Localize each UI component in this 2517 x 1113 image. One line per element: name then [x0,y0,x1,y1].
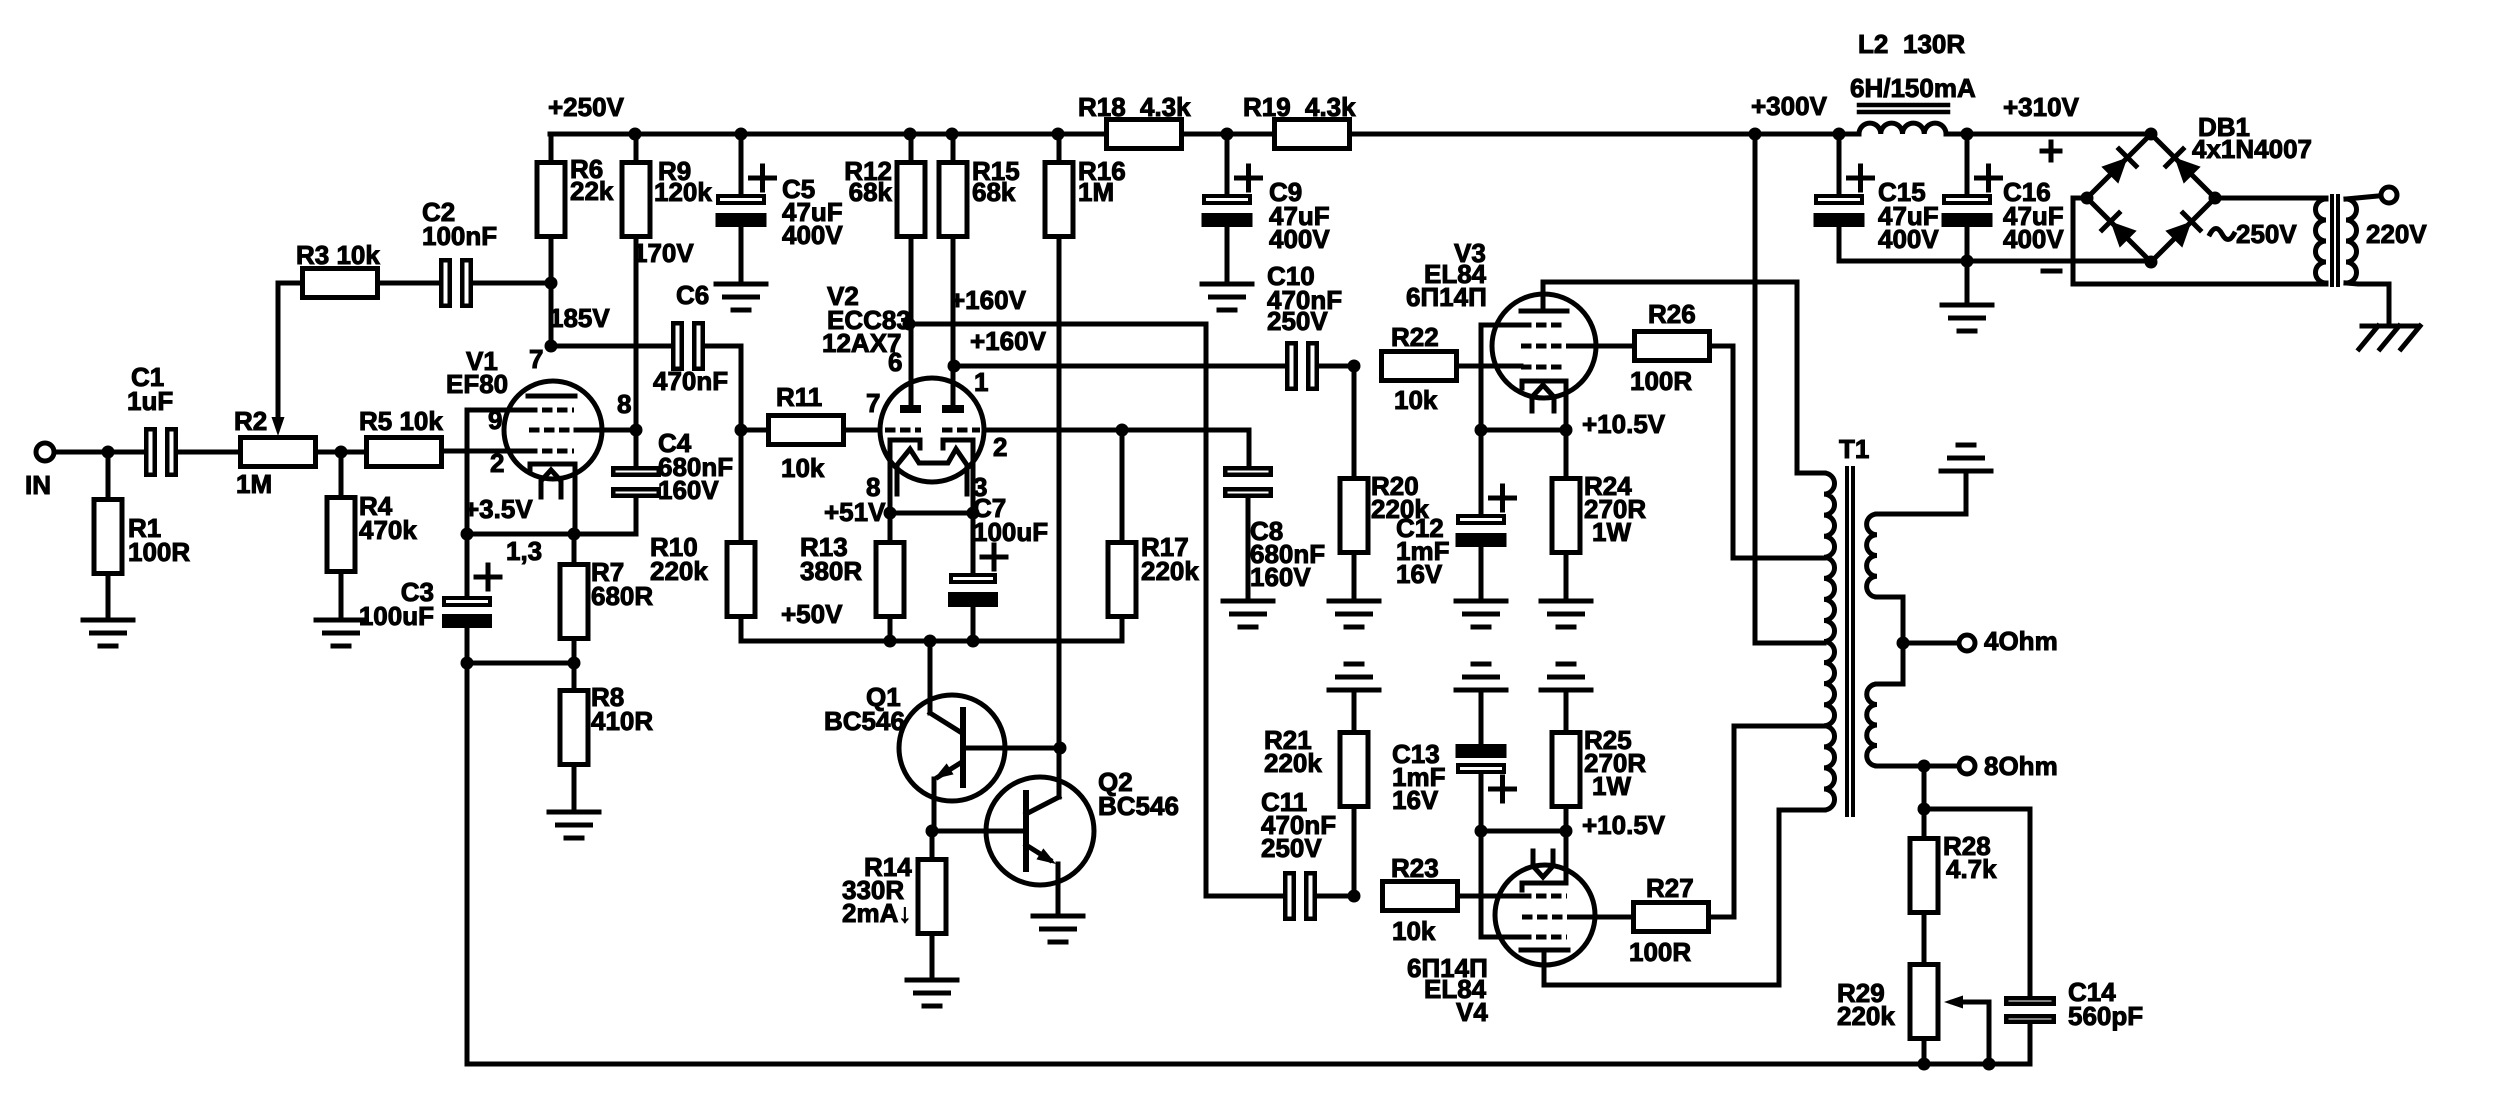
wire bridge AC left loop [2073,198,2326,284]
svg-text:1: 1 [974,367,988,397]
svg-text:+3.5V: +3.5V [464,494,533,524]
capacitor C12 1mF 16V [1479,430,1484,514]
wire V2 right grid to C8 [984,428,1249,433]
wire +10.5V rail V4 [1481,829,1566,834]
svg-text:T1: T1 [1839,434,1869,464]
svg-text:L2: L2 [1858,29,1888,59]
potentiometer R29 220k [1910,965,1938,1039]
svg-text:680R: 680R [591,581,653,611]
capacitor C8 680nF [1225,468,1271,475]
svg-text:6: 6 [888,347,902,377]
wire 8 Ohm tap [1877,764,1916,769]
capacitor C9 47uF 400V [1225,134,1230,194]
svg-text:+310V: +310V [2003,92,2080,122]
resistor R13 380R [888,513,893,540]
potentiometer R2 1M [241,438,316,467]
wire R11 to V2 grid [846,428,880,433]
svg-text:4.7k: 4.7k [1946,854,1997,884]
V1 grid g2 pin 8 [529,428,576,433]
svg-text:100R: 100R [1630,366,1692,396]
ground R14 [907,978,957,983]
wire +300V to T1 center tap [1753,134,1758,643]
R29 wiper arrow [1953,1000,1989,1005]
wire feedback bottom run [465,663,470,1064]
capacitor C5 47uF 400V [739,134,744,194]
svg-text:220k: 220k [1264,748,1322,778]
V4 cathode [1522,831,1566,890]
V2 anode right pin 1 [942,405,964,413]
svg-text:6П14П: 6П14П [1406,282,1487,312]
V4 grid g2 screen [1522,915,1571,920]
resistor R20 220k [1352,366,1357,476]
svg-text:16V: 16V [1392,785,1439,815]
svg-text:+10.5V: +10.5V [1582,810,1666,840]
svg-text:10k: 10k [781,453,825,483]
capacitor C13 1mF 16V [1479,690,1484,744]
V3 grid g2 screen [1521,344,1570,349]
svg-text:380R: 380R [800,556,862,586]
junction dots on +250V rail [629,128,642,141]
svg-text:160V: 160V [658,475,719,505]
svg-text:10k: 10k [1392,916,1436,946]
terminal 220V mains [2381,187,2397,203]
net +250V rail [550,132,1104,137]
svg-text:+50V: +50V [781,599,843,629]
V4 grid g3 tied to cathode [1521,935,1567,940]
wire 4 Ohm tap [1877,597,1903,684]
junction V1 anode pin 7 [545,340,558,353]
V3 anode wire to T1 primary top [1541,282,1546,311]
svg-text:220k: 220k [1141,556,1199,586]
wire +10.5V rail V3 [1481,428,1566,433]
svg-text:1uF: 1uF [127,386,173,416]
diode D2 lower-right [2165,222,2191,248]
wire 8 Ohm to feedback divider [1922,766,1927,809]
svg-text:2mA↓: 2mA↓ [842,898,911,928]
resistor R5 10k [367,438,442,467]
svg-text:250V: 250V [1267,306,1328,336]
terminal 4Ohm [1959,635,1975,651]
floating ground above R25 [1541,688,1591,693]
svg-text:185V: 185V [549,303,610,333]
tube V3 EL84 envelope [1492,294,1596,398]
svg-text:220k: 220k [650,556,708,586]
svg-text:R23: R23 [1391,853,1439,883]
ground R20 [1329,599,1379,604]
resistor R12 68k [909,134,914,160]
capacitor C14 560pF [2028,809,2033,996]
svg-text:R11: R11 [776,382,822,412]
resistor R10 220k [739,430,744,540]
capacitor C10 470nF 250V [1287,343,1296,389]
V2 grid left pin 7 [885,428,921,433]
ground power supply [1965,261,1970,304]
resistor R18 4.3k [1107,120,1182,149]
capacitor C16 47uF 400V [1965,134,1970,194]
svg-text:R22: R22 [1391,322,1439,352]
svg-text:250V: 250V [1261,833,1322,863]
floating ground above R21 [1329,688,1379,693]
wire bridge AC right to mains transformer [2215,196,2326,201]
resistor R23 10k [1383,882,1458,911]
R2 wiper arrow from R3 [276,283,281,424]
V2 anode left pin 6 [900,405,921,413]
svg-text:R2: R2 [234,406,267,436]
bridge minus mark [2043,269,2060,274]
wire input to C1 [54,450,144,455]
diode D4 upper-right [2175,158,2201,184]
ground C9 [1202,282,1252,287]
ground T1 secondary top [1941,469,1991,474]
svg-text:220V: 220V [2366,219,2427,249]
svg-text:410R: 410R [591,706,653,736]
resistor R27 100R [1634,903,1709,932]
svg-text:4.3k: 4.3k [1140,92,1191,122]
V2 cathode right pin 3 [943,440,973,513]
svg-text:7: 7 [866,388,880,418]
capacitor C11 470nF 250V [1285,873,1294,919]
svg-text:100nF: 100nF [422,221,497,251]
capacitor C7 100uF [971,513,976,573]
svg-text:1W: 1W [1592,771,1631,801]
V3 grid g1 [1521,365,1566,370]
wire R26 to T1 screen tap upper [1712,346,1824,558]
svg-text:R27: R27 [1646,873,1694,903]
resistor R8 410R [572,663,577,688]
resistor R6 22k [549,134,554,160]
svg-text:560pF: 560pF [2068,1001,2143,1031]
capacitor C6 470nF [673,323,682,369]
resistor R14 330R [930,831,935,857]
svg-text:R5 10k: R5 10k [359,406,443,436]
junction C11 R23 R21 [1317,894,1354,899]
resistor R3 10k [278,281,300,286]
svg-text:2: 2 [490,448,504,478]
ground C12 [1456,599,1506,604]
input terminal IN [36,443,54,461]
svg-text:130R: 130R [1903,29,1965,59]
svg-text:1,3: 1,3 [506,536,542,566]
resistor R16 1M [1057,134,1062,160]
capacitor C1 1uF [146,429,155,475]
svg-text:10k: 10k [1394,385,1438,415]
svg-text:R19: R19 [1243,92,1291,122]
svg-text:68k: 68k [849,177,893,207]
wire C1 to R2 [178,450,238,455]
capacitor C15 47uF 400V [1837,134,1842,194]
wire V2 cathode rail +51V [890,511,973,516]
svg-text:9: 9 [488,405,502,435]
V3 grid g3 tied to cathode [1521,323,1566,328]
svg-text:R3 10k: R3 10k [296,240,380,270]
svg-text:+10.5V: +10.5V [1582,409,1666,439]
V2 cathode left pin 8 [890,440,920,513]
AC tilde mark [2210,229,2234,240]
V4 anode plate [1521,948,1568,953]
resistor R17 220k [1120,430,1125,540]
V1 anode plate pin 7 [528,394,575,399]
V4 anode wire to T1 primary bottom [1544,810,1824,985]
ground C8 [1223,599,1273,604]
wire cathode bottom rail [467,661,574,666]
wire V1 cathode rail 1,3 [467,532,636,537]
svg-text:68k: 68k [972,177,1016,207]
wire R5 to V1 grid [444,449,526,454]
wire R3 to C2 [380,281,439,286]
V3 anode plate [1521,309,1567,314]
bridge plus mark [2042,149,2060,154]
svg-text:4x1N4007: 4x1N4007 [2192,134,2312,164]
svg-text:+160V: +160V [950,285,1027,315]
svg-text:V4: V4 [1456,997,1488,1027]
ground C5 [716,282,766,287]
resistor R9 120k [634,134,639,160]
tube V1 EF80 envelope [504,381,602,479]
svg-text:400V: 400V [1269,224,1330,254]
chassis ground mains [2362,324,2417,329]
wire T1 secondary top to ground [1877,473,1966,514]
capacitor C4 680nF [634,430,639,466]
junction V2 right anode pin 1 node [948,360,961,373]
transformer T1 secondary winding lower [1867,684,1877,766]
ground R24 [1541,599,1591,604]
resistor R7 680R [572,534,577,562]
wire +50V tail rail [741,639,1122,644]
svg-text:120k: 120k [654,177,712,207]
svg-text:250V: 250V [2236,219,2297,249]
svg-text:+300V: +300V [1751,91,1828,121]
svg-text:+160V: +160V [970,326,1047,356]
floating ground above C13 [1456,688,1506,693]
svg-text:BC546: BC546 [824,706,905,736]
V4 heater [1533,851,1553,877]
capacitor C3 100uF [465,534,470,596]
svg-text:1M: 1M [1078,177,1114,207]
Q1 base wire to Q2 collector [965,746,1060,751]
transformer T1 primary winding [1824,473,1835,810]
resistor R28 4.7k [1922,809,1927,836]
transformer T1 secondary winding upper [1867,514,1877,597]
svg-text:400V: 400V [2003,224,2064,254]
transistor Q2 BC546 [986,777,1094,885]
svg-text:+250V: +250V [548,92,625,122]
svg-text:7: 7 [529,344,543,374]
V4 grid g1 [1521,894,1567,899]
svg-text:8: 8 [617,389,631,419]
mains transformer secondary 220V winding [2346,199,2357,283]
wire anode node to C6 [551,344,673,349]
svg-text:R18: R18 [1078,92,1126,122]
resistor R21 220k [1352,690,1357,730]
svg-text:16V: 16V [1396,559,1443,589]
svg-text:4Ohm: 4Ohm [1984,626,2058,656]
svg-text:22k: 22k [570,176,614,206]
ground R8 [549,810,599,815]
svg-text:IN: IN [25,470,51,500]
svg-text:4.3k: 4.3k [1305,92,1356,122]
svg-text:R26: R26 [1648,299,1696,329]
svg-text:EF80: EF80 [446,369,508,399]
ground Q2 emitter [1033,914,1083,919]
diode D1 lower-left [2111,222,2137,248]
junction C10 R22 R20 [1319,364,1354,369]
svg-text:1M: 1M [236,469,272,499]
svg-text:BC546: BC546 [1098,791,1179,821]
svg-text:220k: 220k [1837,1001,1895,1031]
wire +160V left anode to V4 coupling [909,322,1206,327]
V3 heater [1532,385,1554,411]
resistor R1 100R [106,452,111,497]
capacitor C2 100nF [441,260,450,306]
junction V1 screen g2 node [630,424,643,437]
wire 220V top terminal [2346,196,2378,199]
svg-text:400V: 400V [1878,224,1939,254]
wire R2 to R5 [317,450,364,455]
wire C6 to grid node of V2 [705,344,741,349]
wire R27 to T1 screen tap lower [1711,726,1824,917]
V1 grid g3 pin 9 [527,408,574,413]
svg-text:100uF: 100uF [359,601,434,631]
ground R1 [83,618,133,623]
svg-text:100R: 100R [1629,937,1691,967]
resistor R25 270R 1W [1564,690,1569,730]
V1 grid g1 pin 2 [527,449,574,454]
svg-text:100uF: 100uF [973,517,1048,547]
bridge rectifier DB1 4x1N4007 [2087,134,2215,262]
tube V4 EL84 envelope [1495,865,1595,965]
V3 cathode [1522,381,1566,430]
svg-text:8Ohm: 8Ohm [1984,751,2058,781]
wire C2 to R6 node [473,281,551,286]
resistor R24 270R 1W [1564,430,1569,476]
resistor R22 10k [1382,352,1457,381]
svg-text:470nF: 470nF [653,366,728,396]
mains transformer primary 250V winding [2316,199,2327,283]
resistor R11 10k [769,416,844,445]
svg-text:400V: 400V [782,220,843,250]
transformer T1 core [1845,468,1849,815]
V1 heater [541,470,561,497]
resistor R15 68k [951,134,956,160]
tube V2 ECC83 envelope [880,378,984,482]
terminal 8Ohm [1959,758,1975,774]
svg-text:C6: C6 [676,280,709,310]
svg-text:+51V: +51V [824,497,886,527]
V1 cathode [530,464,575,534]
junction C3 bottom feedback node [461,657,474,670]
svg-text:6H/150mA: 6H/150mA [1850,73,1976,103]
junction V2 left anode pin 6 node [903,318,916,331]
ground R4 [316,618,366,623]
transistor Q1 BC546 [899,695,1005,801]
svg-text:470k: 470k [359,515,417,545]
wire 220V bottom to chassis ground [2346,283,2389,326]
svg-text:170V: 170V [633,238,694,268]
junction Q1 emitter node [926,825,939,838]
wire +160V right anode to V3 coupling [954,364,1286,369]
resistor R19 4.3k [1275,120,1350,149]
V2 heater [897,449,967,494]
diode D3 upper-left [2101,158,2127,184]
junction C2/R6 [545,277,558,290]
wire DC minus rail [1839,259,2151,264]
svg-text:1W: 1W [1592,517,1631,547]
mains transformer core [2330,196,2334,285]
resistor R4 470k [339,452,344,495]
svg-text:160V: 160V [1250,562,1311,592]
svg-text:100R: 100R [128,537,190,567]
svg-text:2: 2 [993,432,1007,462]
V2 grid right pin 2 [942,428,980,433]
resistor R26 100R [1635,332,1710,361]
